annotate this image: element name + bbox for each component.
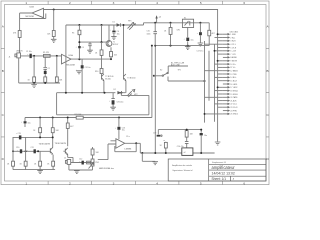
wire U1A output — [71, 58, 111, 60]
svg-text:+: + — [27, 54, 28, 56]
node bottom rail — [33, 82, 35, 84]
svg-text:MAIN SIGNAL bus: MAIN SIGNAL bus — [99, 167, 114, 170]
wire bl shunt columns — [13, 137, 53, 169]
svg-text:+: + — [76, 70, 77, 72]
node pin bus junction — [214, 50, 216, 52]
node mid rail junctions — [39, 117, 41, 119]
wire pin link 1 — [218, 33, 223, 35]
resistor R8 — [55, 77, 63, 82]
svg-text:T1: T1 — [113, 41, 115, 43]
node rail2b junctions — [154, 22, 156, 24]
capacitor C4 — [78, 46, 84, 49]
connector J2 — [64, 157, 71, 164]
svg-text:3 IN-R: 3 IN-R — [230, 41, 236, 43]
resistor R5 — [72, 30, 81, 35]
svg-text:R11 10K: R11 10K — [75, 114, 83, 116]
ground — [185, 47, 191, 50]
svg-text:+: + — [76, 47, 77, 49]
node emitter out — [110, 58, 112, 60]
wire input shunt column 1 — [33, 56, 35, 83]
svg-text:4K7: 4K7 — [212, 33, 215, 35]
svg-text:D2: D2 — [114, 89, 116, 91]
wire pin link 14 — [215, 76, 223, 78]
wire br upper rail — [158, 129, 201, 131]
svg-text:C18: C18 — [153, 132, 156, 134]
capacitor C20 — [200, 133, 208, 137]
resistor R20 — [164, 23, 172, 46]
svg-text:U1A: U1A — [69, 54, 74, 57]
wire rail2b sub rail — [155, 45, 209, 47]
wire U2 output — [125, 143, 141, 153]
svg-text:+: + — [27, 150, 28, 152]
svg-text:5: 5 — [200, 181, 202, 185]
node sub-rail junction V1 — [151, 45, 153, 47]
wire br right vertical — [200, 130, 202, 153]
node input junction — [33, 55, 35, 57]
svg-text:7 -12V: 7 -12V — [230, 54, 236, 56]
capacitor C6 — [111, 25, 119, 40]
wire T6 emitter link — [68, 154, 73, 162]
ground — [31, 83, 37, 88]
node br junctions — [141, 152, 143, 154]
switch SW1 — [160, 70, 168, 77]
svg-text:10u: 10u — [122, 130, 125, 132]
wire T3 column — [124, 25, 126, 93]
transistor T5 — [50, 143, 66, 154]
capacitor C7 — [88, 42, 91, 50]
pin 21 — [223, 99, 237, 102]
svg-text:R10: R10 — [95, 71, 98, 73]
border frame outer — [1, 1, 269, 185]
svg-text:2: 2 — [69, 1, 71, 5]
pin 22 — [223, 103, 237, 106]
output probe arrows 2 — [127, 89, 138, 97]
node br upper junctions — [186, 129, 188, 131]
svg-text:5 OT-R: 5 OT-R — [230, 47, 236, 49]
capacitor C11 — [31, 147, 36, 154]
svg-text:BC107: BC107 — [113, 44, 119, 46]
svg-text:J1: J1 — [9, 57, 11, 59]
connector CN1 — [230, 31, 239, 33]
wire input line — [21, 55, 62, 57]
capacitor C17 — [197, 23, 204, 53]
svg-text:U1B: U1B — [30, 6, 35, 8]
svg-text:C17 47u: C17 47u — [197, 50, 204, 52]
svg-text:6: 6 — [243, 1, 245, 5]
node bl rail junctions — [25, 150, 27, 152]
ground — [51, 39, 57, 42]
svg-text:4 OT-L: 4 OT-L — [230, 44, 236, 46]
svg-text:LM386: LM386 — [125, 148, 132, 150]
resistor R18 — [87, 161, 91, 164]
svg-text:13 TRB: 13 TRB — [230, 74, 237, 76]
svg-text:18 SW-A: 18 SW-A — [230, 89, 238, 92]
svg-text:1: 1 — [25, 181, 27, 185]
svg-text:4: 4 — [156, 1, 158, 5]
svg-text:+: + — [184, 38, 185, 40]
svg-text:+x: +x — [163, 140, 165, 142]
node tap junction — [153, 75, 155, 77]
wire input shunt column 2 — [44, 57, 46, 83]
svg-text:15 BL-R: 15 BL-R — [230, 81, 237, 83]
svg-text:10u: 10u — [117, 34, 120, 36]
svg-text:3: 3 — [113, 1, 115, 5]
ground — [37, 170, 43, 174]
pin 6 — [223, 50, 237, 53]
wire bias row — [79, 25, 106, 42]
wire sub-rail drop V1 — [151, 46, 153, 118]
wire bl bottom rail — [13, 169, 55, 171]
svg-text:+: + — [17, 150, 18, 152]
wire input bottom rail — [19, 58, 60, 83]
pin 17 — [223, 86, 238, 89]
title block — [168, 159, 266, 181]
svg-text:19 SW-B: 19 SW-B — [230, 94, 238, 96]
capacitor C12 — [79, 159, 84, 165]
wire pin link 9 — [218, 60, 223, 62]
svg-text:LINE-IN: LINE-IN — [16, 51, 23, 53]
svg-text:10 VL+: 10 VL+ — [230, 64, 236, 66]
capacitor C16 — [186, 38, 193, 42]
svg-text:MC1458: MC1458 — [67, 65, 76, 67]
wire br left vertical — [154, 46, 156, 153]
connector CN1 bus verticals — [205, 41, 215, 123]
wire pin link 3 — [218, 40, 223, 42]
pin 11 — [223, 67, 236, 70]
wire pin link 7 — [218, 53, 223, 55]
svg-text:K1: K1 — [184, 17, 186, 19]
resistor R1 — [43, 52, 50, 57]
svg-text:4K7: 4K7 — [70, 126, 73, 128]
svg-text:+: + — [21, 122, 22, 124]
wire pin link 13 — [218, 73, 223, 75]
node lower link — [204, 80, 206, 82]
wire rail2 — [66, 23, 209, 25]
pin 24 — [223, 110, 237, 113]
node bl top junctions — [39, 136, 41, 138]
svg-text:S2: S2 — [160, 70, 162, 72]
svg-text:Emplacement 14: Emplacement 14 — [212, 161, 225, 164]
svg-text:C15: C15 — [147, 31, 150, 33]
svg-text:C11: C11 — [31, 147, 34, 149]
wire pin link 5 — [218, 47, 223, 49]
svg-text:6: 6 — [243, 181, 245, 185]
svg-text:100n: 100n — [147, 33, 151, 35]
pin 8 — [223, 56, 238, 59]
node output junction — [78, 58, 80, 60]
wire pin link 4 — [205, 43, 223, 45]
resistor R2 — [13, 31, 21, 38]
svg-text:11 VL-: 11 VL- — [230, 67, 236, 69]
pin 25 — [223, 113, 238, 116]
wire pin link 11 — [218, 66, 223, 68]
node br right top — [200, 129, 202, 131]
wire pin link 22 — [215, 103, 223, 105]
pin 20 — [223, 96, 238, 99]
wire T1 emitter — [110, 47, 112, 59]
capacitor C2 — [43, 68, 47, 70]
node bias junctions — [78, 41, 80, 43]
polarity marks — [17, 30, 198, 164]
svg-text:21 AUX: 21 AUX — [230, 99, 237, 102]
svg-text:HP1: HP1 — [128, 20, 132, 22]
svg-text:C10: C10 — [16, 147, 19, 149]
svg-text:+: + — [197, 33, 198, 35]
wire switch lower — [168, 77, 205, 82]
wire bl top rail — [13, 136, 53, 138]
resistor R17 — [47, 161, 54, 166]
svg-text:+: + — [110, 30, 111, 32]
capacitor C8 — [111, 93, 123, 108]
wire pin link 25 — [205, 113, 223, 115]
resistor R7 — [44, 77, 47, 82]
pin 14 — [223, 77, 237, 80]
node R1 out — [56, 55, 58, 57]
svg-text:17 LED2: 17 LED2 — [230, 87, 237, 89]
svg-text:6 +12V: 6 +12V — [230, 51, 237, 53]
pin 1 — [223, 33, 237, 36]
capacitor C10 — [16, 147, 22, 154]
pin 12 — [223, 70, 239, 73]
ground — [198, 43, 204, 46]
resistor R11 — [75, 114, 84, 119]
regulator box U3 — [182, 148, 193, 156]
wire pin link 21 — [218, 100, 223, 102]
svg-text:Sheet: 1/1: Sheet: 1/1 — [212, 177, 227, 181]
wire T2 emitter — [103, 81, 105, 93]
transistor T3 — [124, 74, 136, 81]
wire driver column — [101, 42, 103, 75]
node U2 out — [135, 142, 137, 144]
resistor R12 — [33, 128, 41, 133]
pin 3 — [223, 40, 236, 43]
pin 23 — [223, 106, 238, 109]
svg-text:MC1458: MC1458 — [26, 16, 35, 18]
ground — [87, 50, 93, 53]
wire bottom-right rail — [140, 152, 214, 154]
svg-text:20 TAPE: 20 TAPE — [230, 96, 238, 99]
svg-text:12 BASS: 12 BASS — [230, 70, 238, 73]
wire pin link 12 — [205, 70, 223, 72]
capacitor C9 — [24, 118, 31, 128]
svg-text:+: + — [79, 161, 80, 163]
svg-text:3: 3 — [113, 181, 115, 185]
node pin bus junction 2 — [204, 113, 206, 115]
wire out rail3 — [57, 92, 126, 94]
capacitor C15 — [147, 23, 158, 46]
wire input shunt column 3 — [56, 56, 58, 83]
svg-text:J2: J2 — [64, 157, 66, 159]
resistor R3 — [47, 31, 55, 37]
resistor R13 — [51, 128, 59, 133]
wire mid shunt 1 — [39, 118, 41, 138]
svg-text:T3 BC160: T3 BC160 — [127, 77, 135, 79]
resistor R14 — [7, 161, 15, 166]
pin 13 — [223, 73, 237, 76]
op-amp U1B — [26, 6, 44, 18]
capacitor C3 — [44, 68, 50, 74]
output probe arrows — [128, 20, 136, 29]
svg-text:4: 4 — [156, 181, 158, 185]
pin 4 — [223, 43, 236, 46]
border frame inner — [5, 5, 267, 182]
resistor R9 — [95, 50, 103, 56]
pin 9 — [223, 60, 238, 63]
svg-text:16 LED1: 16 LED1 — [230, 84, 237, 86]
frame ticks — [1, 1, 269, 185]
svg-text:22 CD-L: 22 CD-L — [230, 104, 237, 106]
capacitor C5 — [81, 65, 91, 69]
wire pin link 23 — [218, 106, 223, 108]
frame labels — [2, 1, 270, 185]
svg-text:+: + — [109, 101, 110, 103]
svg-text:C2: C2 — [48, 68, 50, 70]
ground — [76, 71, 82, 74]
svg-text:2 IN-L: 2 IN-L — [230, 37, 235, 39]
svg-text:14 BL-L: 14 BL-L — [230, 77, 236, 79]
diode D2 — [114, 89, 122, 94]
svg-text:CH1: CH1 — [177, 30, 181, 32]
wire pin link 10 — [215, 63, 223, 65]
wire pin link 20 — [205, 96, 223, 98]
svg-text:CN1 DB25: CN1 DB25 — [230, 31, 239, 33]
svg-text:1 GND: 1 GND — [230, 34, 236, 36]
pin 7 — [223, 53, 237, 56]
wire br ground stub — [142, 153, 155, 161]
wire relay bottom column — [187, 28, 189, 46]
node rail2 junctions — [78, 24, 80, 26]
op-amp U2A — [116, 136, 132, 150]
capacitor C18 — [153, 130, 162, 137]
resistor R15 — [20, 161, 28, 166]
pin 18 — [223, 89, 238, 92]
wire bc bottom rail — [69, 164, 93, 170]
wire pin link 17 — [218, 86, 223, 88]
svg-text:Amplificateur de controle: Amplificateur de controle — [172, 164, 192, 167]
potentiometer RV1 — [89, 147, 100, 170]
capacitor C13 — [117, 127, 125, 132]
wire bias column — [79, 25, 82, 93]
wire bc input line — [71, 144, 108, 163]
wire switch out — [168, 66, 188, 73]
ground — [152, 161, 158, 164]
pin 10 — [223, 63, 236, 66]
wire mid long rail — [25, 117, 152, 119]
capacitor C19 — [16, 133, 22, 140]
wire U2 supply column — [118, 118, 120, 140]
resistor R23 — [185, 130, 194, 148]
svg-text:C5 10u: C5 10u — [85, 67, 91, 69]
resistor R25 — [110, 52, 118, 57]
svg-text:5: 5 — [200, 1, 202, 5]
svg-text:BC160: BC160 — [105, 79, 111, 81]
ground — [110, 107, 116, 110]
svg-text:T4 BC547B: T4 BC547B — [39, 144, 51, 146]
pin 5 — [223, 47, 237, 50]
node rail3 junctions — [81, 92, 83, 94]
svg-text:C9 x: C9 x — [126, 136, 130, 138]
svg-text:10u: 10u — [191, 40, 194, 42]
resistor R24 — [160, 140, 168, 153]
relay K1 — [177, 17, 194, 31]
pin 16 — [223, 83, 238, 86]
wire U1B input column — [19, 19, 21, 54]
wire loop link — [57, 93, 149, 115]
svg-text:24 PHN: 24 PHN — [230, 110, 237, 112]
svg-text:T5 BC547B: T5 BC547B — [55, 143, 67, 145]
wire rail2 left drop — [65, 25, 67, 93]
svg-text:C8 100u: C8 100u — [117, 102, 124, 104]
wire bottom-left rail — [13, 150, 50, 152]
svg-text:2: 2 — [69, 181, 71, 185]
wire divider column — [53, 10, 55, 40]
pin 19 — [223, 93, 238, 96]
svg-text:D1: D1 — [113, 21, 115, 23]
svg-text:C4: C4 — [82, 47, 84, 49]
wire mid shunt 2 — [52, 118, 54, 148]
diode D1 — [113, 21, 121, 26]
node R22 top — [67, 117, 69, 119]
svg-text:C12: C12 — [79, 159, 82, 161]
power flag +V — [155, 15, 161, 23]
wire U2 inputs — [108, 141, 116, 144]
wire pin link 19 — [218, 93, 223, 95]
transistor T6 — [63, 148, 68, 155]
svg-text:amplificateur: amplificateur — [212, 165, 236, 170]
transistor T4 — [39, 144, 51, 146]
pin 15 — [223, 80, 238, 83]
ground top-rail end — [215, 142, 221, 145]
svg-text:14/04/12 13:02: 14/04/12 13:02 — [212, 172, 235, 176]
transistor T1 — [106, 40, 118, 46]
resistor R6 — [28, 77, 36, 82]
svg-text:C1 10u: C1 10u — [26, 51, 32, 53]
transistor T2 — [102, 74, 114, 81]
svg-text:B: B — [2, 69, 4, 73]
connector J1 line input — [9, 51, 24, 59]
pin 2 — [223, 37, 235, 40]
svg-text:23 CD-R: 23 CD-R — [230, 107, 238, 109]
svg-text:B: B — [267, 69, 269, 73]
svg-text:T2 BC140: T2 BC140 — [105, 76, 113, 78]
svg-text:1: 1 — [25, 1, 27, 5]
node top rail junction — [53, 9, 55, 11]
svg-text:AUX_LINE: AUX_LINE — [171, 64, 180, 67]
wire pin link 15 — [218, 80, 223, 82]
svg-text:RV1: RV1 — [96, 162, 99, 164]
wire U2 feedback — [115, 143, 136, 151]
wire U1B feedback loop — [20, 13, 46, 19]
wire pin link 2 — [215, 37, 223, 39]
wire pin link 18 — [215, 90, 223, 92]
svg-text:8 AGND: 8 AGND — [230, 56, 237, 59]
ground — [74, 171, 80, 174]
wire T1 collector — [108, 25, 110, 41]
op-amp U1A — [62, 54, 76, 67]
svg-text:R5: R5 — [72, 33, 74, 35]
svg-text:10u: 10u — [28, 123, 31, 125]
svg-text:TP2: TP2 — [178, 69, 181, 71]
capacitor C1 — [26, 51, 32, 58]
wire top rail — [44, 10, 218, 142]
svg-text:+: + — [115, 128, 116, 130]
resistor R10 — [95, 69, 103, 74]
svg-text:10u: 10u — [204, 135, 207, 137]
resistor R21 — [208, 23, 215, 46]
wire pin link 6 — [215, 50, 223, 52]
svg-text:x2: x2 — [184, 152, 186, 154]
svg-text:+ C19: + C19 — [16, 133, 21, 135]
